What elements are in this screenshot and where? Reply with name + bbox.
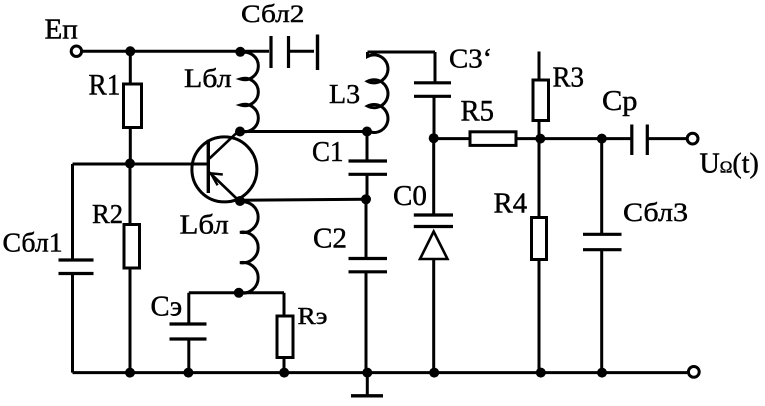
svg-text:Lбл: Lбл	[184, 64, 232, 93]
node L3 bottom / C1 top	[362, 127, 372, 137]
node base net / R1-R2 column	[125, 159, 135, 169]
resistor Rэ	[277, 293, 293, 373]
ground	[351, 373, 383, 396]
resistor R2	[124, 164, 140, 373]
capacitor Ср	[632, 125, 686, 156]
resistor R5	[470, 132, 516, 146]
capacitor C2	[349, 199, 388, 372]
wire emitter bias horizontal	[189, 291, 284, 294]
svg-text:R4: R4	[494, 189, 528, 220]
node bottom rail / C2-ground	[362, 368, 372, 378]
node bottom rail / Rэ	[279, 368, 289, 378]
node bottom rail / R4	[536, 368, 546, 378]
svg-text:Ср: Ср	[602, 86, 638, 117]
node top rail / Lбл top	[235, 47, 245, 57]
svg-text:Lбл: Lбл	[180, 210, 229, 240]
svg-text:C3‘: C3‘	[449, 44, 492, 74]
capacitor Сбл1	[59, 164, 94, 373]
capacitor Сбл3	[583, 139, 622, 373]
terminal output UΩ(t)	[687, 133, 698, 144]
svg-text:Rэ: Rэ	[298, 304, 328, 330]
terminal bottom right	[688, 367, 699, 378]
capacitor Сбл2	[271, 35, 318, 71]
capacitor C1	[349, 132, 388, 200]
svg-text:R3: R3	[553, 63, 585, 94]
svg-text:L3: L3	[329, 79, 360, 109]
svg-text:C2: C2	[313, 224, 347, 255]
wire output net R5 to Ср	[516, 137, 631, 140]
svg-text:C1: C1	[312, 136, 344, 168]
node C1 bottom / C2 top	[361, 194, 371, 204]
inductor L3	[368, 52, 436, 133]
svg-text:C0: C0	[393, 180, 427, 212]
svg-text:Сэ: Сэ	[151, 292, 183, 323]
wire bottom rail	[73, 371, 688, 374]
svg-text:R2: R2	[92, 198, 123, 229]
svg-text:Сбл1: Сбл1	[3, 228, 63, 258]
capacitor C0 (varicap)	[414, 139, 453, 373]
terminal Еп	[71, 46, 81, 56]
node bottom rail / Сбл3	[597, 368, 607, 378]
node Lбл bottom / emitter bias	[234, 288, 244, 298]
inductor Lбл top	[240, 52, 258, 131]
capacitor Сэ	[170, 293, 207, 373]
capacitor C3'	[414, 52, 451, 139]
node bottom rail / Сэ	[183, 368, 193, 378]
wire output net to R5	[434, 137, 470, 140]
resistor R1	[124, 51, 142, 164]
node collector / Lбл bottom	[235, 127, 245, 137]
wire emitter net	[240, 198, 366, 202]
transistor VT (pnp)	[192, 131, 257, 202]
wire top rail from Еп terminal to Сбл2 left plate	[83, 50, 269, 53]
inductor Lбл bottom	[240, 202, 258, 293]
node bottom rail / C0	[429, 368, 439, 378]
wire base net horizontal	[73, 163, 208, 166]
wire collector net	[240, 130, 367, 133]
svg-text:R5: R5	[461, 95, 495, 128]
node bottom rail / R2	[125, 368, 135, 378]
svg-text:Сбл3: Сбл3	[623, 197, 688, 227]
node output net / C0	[429, 133, 439, 143]
svg-text:R1: R1	[89, 68, 121, 101]
resistor R4	[532, 139, 547, 373]
node output net / Сбл3	[597, 134, 607, 144]
resistor R3	[533, 52, 549, 139]
node top rail / R1	[125, 46, 135, 56]
svg-text:Сбл2: Сбл2	[241, 1, 305, 28]
node output net / R3-R4	[535, 134, 545, 144]
node emitter	[235, 196, 245, 206]
svg-text:Еп: Еп	[45, 14, 78, 45]
